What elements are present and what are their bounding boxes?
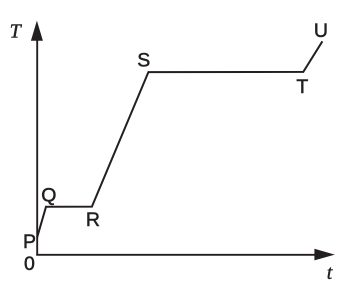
svg-text:0: 0 bbox=[24, 253, 35, 275]
y-axis arrowhead bbox=[31, 21, 43, 41]
svg-text:S: S bbox=[137, 50, 150, 72]
y-axis (temperature axis) bbox=[36, 38, 38, 256]
heating curve P-Q-R-S-T-U bbox=[37, 41, 322, 237]
svg-text:R: R bbox=[86, 209, 100, 231]
svg-text:P: P bbox=[23, 231, 36, 253]
x-axis arrowhead bbox=[314, 249, 334, 261]
svg-text:t: t bbox=[327, 262, 333, 283]
svg-text:T: T bbox=[296, 76, 308, 98]
svg-text:U: U bbox=[314, 20, 328, 42]
svg-text:T: T bbox=[10, 21, 23, 43]
x-axis (time axis) bbox=[36, 254, 318, 256]
svg-text:Q: Q bbox=[41, 184, 56, 206]
